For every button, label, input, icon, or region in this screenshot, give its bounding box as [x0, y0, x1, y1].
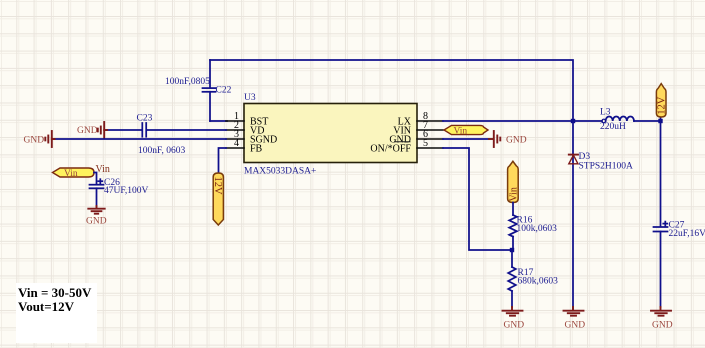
- svg-text:GND: GND: [652, 321, 673, 331]
- svg-text:GND: GND: [565, 321, 586, 331]
- inductor L3: [600, 108, 634, 133]
- annotation text block: [16, 283, 97, 343]
- svg-text:Vin: Vin: [454, 126, 468, 136]
- node divider junction: [510, 248, 514, 252]
- wire LX node to GND rail: [572, 121, 574, 309]
- svg-text:GND: GND: [86, 217, 107, 227]
- svg-text:Vin: Vin: [64, 169, 78, 179]
- wire L3 to output node: [634, 120, 661, 122]
- wire SGND rail: [54, 138, 226, 140]
- power port 12V (FB divider top): [212, 173, 223, 225]
- node output junction: [658, 119, 662, 123]
- svg-text:22uF,16V: 22uF,16V: [669, 229, 705, 239]
- wire FB to 12V port: [219, 148, 227, 173]
- svg-text:D3: D3: [579, 152, 591, 162]
- svg-text:100nF, 0603: 100nF, 0603: [138, 146, 186, 156]
- pin 8 LX: [398, 111, 443, 128]
- svg-text:GND: GND: [506, 136, 527, 146]
- resistor R16: [509, 215, 557, 250]
- resistor R17: [508, 250, 558, 307]
- svg-text:Vin: Vin: [508, 187, 519, 201]
- pin 2 VD: [226, 120, 264, 137]
- pin 3 SGND: [226, 129, 277, 146]
- wire ON/OFF to divider: [443, 148, 510, 250]
- svg-text:FB: FB: [250, 144, 263, 155]
- svg-text:100k,0603: 100k,0603: [517, 224, 558, 234]
- svg-text:12V: 12V: [212, 177, 223, 196]
- wire LX rail: [443, 120, 602, 122]
- wire BST to U3: [210, 120, 227, 122]
- svg-text:100nF,0805: 100nF,0805: [165, 77, 210, 87]
- pin 1 BST: [226, 111, 268, 128]
- svg-text:12V: 12V: [657, 96, 668, 115]
- ground (below R17): [503, 307, 525, 331]
- svg-text:GND: GND: [77, 126, 98, 136]
- svg-text:220uH: 220uH: [600, 122, 626, 132]
- svg-text:5: 5: [423, 138, 428, 149]
- op-amp U3 (IC MAX5033DASA+): [244, 93, 417, 177]
- pin 6 GND: [389, 129, 443, 146]
- wire Vin to C26: [94, 173, 97, 185]
- capacitor C23: [106, 114, 226, 157]
- power port GND (VD rail): [77, 122, 107, 138]
- pin 7 VIN: [393, 120, 444, 137]
- svg-text:ON/*OFF: ON/*OFF: [370, 144, 411, 155]
- power port Vin (at VIN pin): [444, 125, 488, 136]
- power port GND (SGND rail): [24, 131, 55, 147]
- power port Vin (input, left): [53, 168, 95, 179]
- svg-text:4: 4: [234, 138, 239, 149]
- svg-text:STPS2H100A: STPS2H100A: [579, 162, 634, 172]
- svg-text:U3: U3: [244, 93, 256, 103]
- svg-text:GND: GND: [24, 136, 45, 146]
- diode D3: [569, 152, 633, 172]
- svg-text:Vin: Vin: [96, 164, 110, 175]
- ground (below C27): [651, 307, 673, 331]
- capacitor C22: [165, 60, 232, 121]
- wire output to C27: [660, 121, 662, 227]
- wire BST loop top: [210, 60, 573, 119]
- power port Vin (divider top, vertical): [508, 161, 520, 215]
- wire GND pin 6: [443, 138, 489, 140]
- svg-text:C22: C22: [216, 86, 232, 96]
- svg-text:C23: C23: [137, 114, 153, 124]
- power port GND (at GND pin 6): [489, 131, 527, 147]
- pin 5 ON/*OFF: [370, 138, 443, 155]
- power port 12V (output): [656, 84, 667, 121]
- pin 4 FB: [226, 138, 263, 155]
- capacitor C26 (polarized): [90, 178, 149, 207]
- net label Vin: [96, 164, 110, 175]
- svg-text:47UF,100V: 47UF,100V: [104, 186, 149, 196]
- ground (under C26): [86, 206, 107, 227]
- capacitor C27 (polarized): [654, 221, 705, 308]
- svg-text:GND: GND: [504, 321, 525, 331]
- svg-text:MAX5033DASA+: MAX5033DASA+: [244, 167, 316, 177]
- svg-text:680k,0603: 680k,0603: [518, 277, 559, 287]
- node LX/D3 junction: [571, 119, 575, 123]
- ground (below D3): [564, 307, 586, 331]
